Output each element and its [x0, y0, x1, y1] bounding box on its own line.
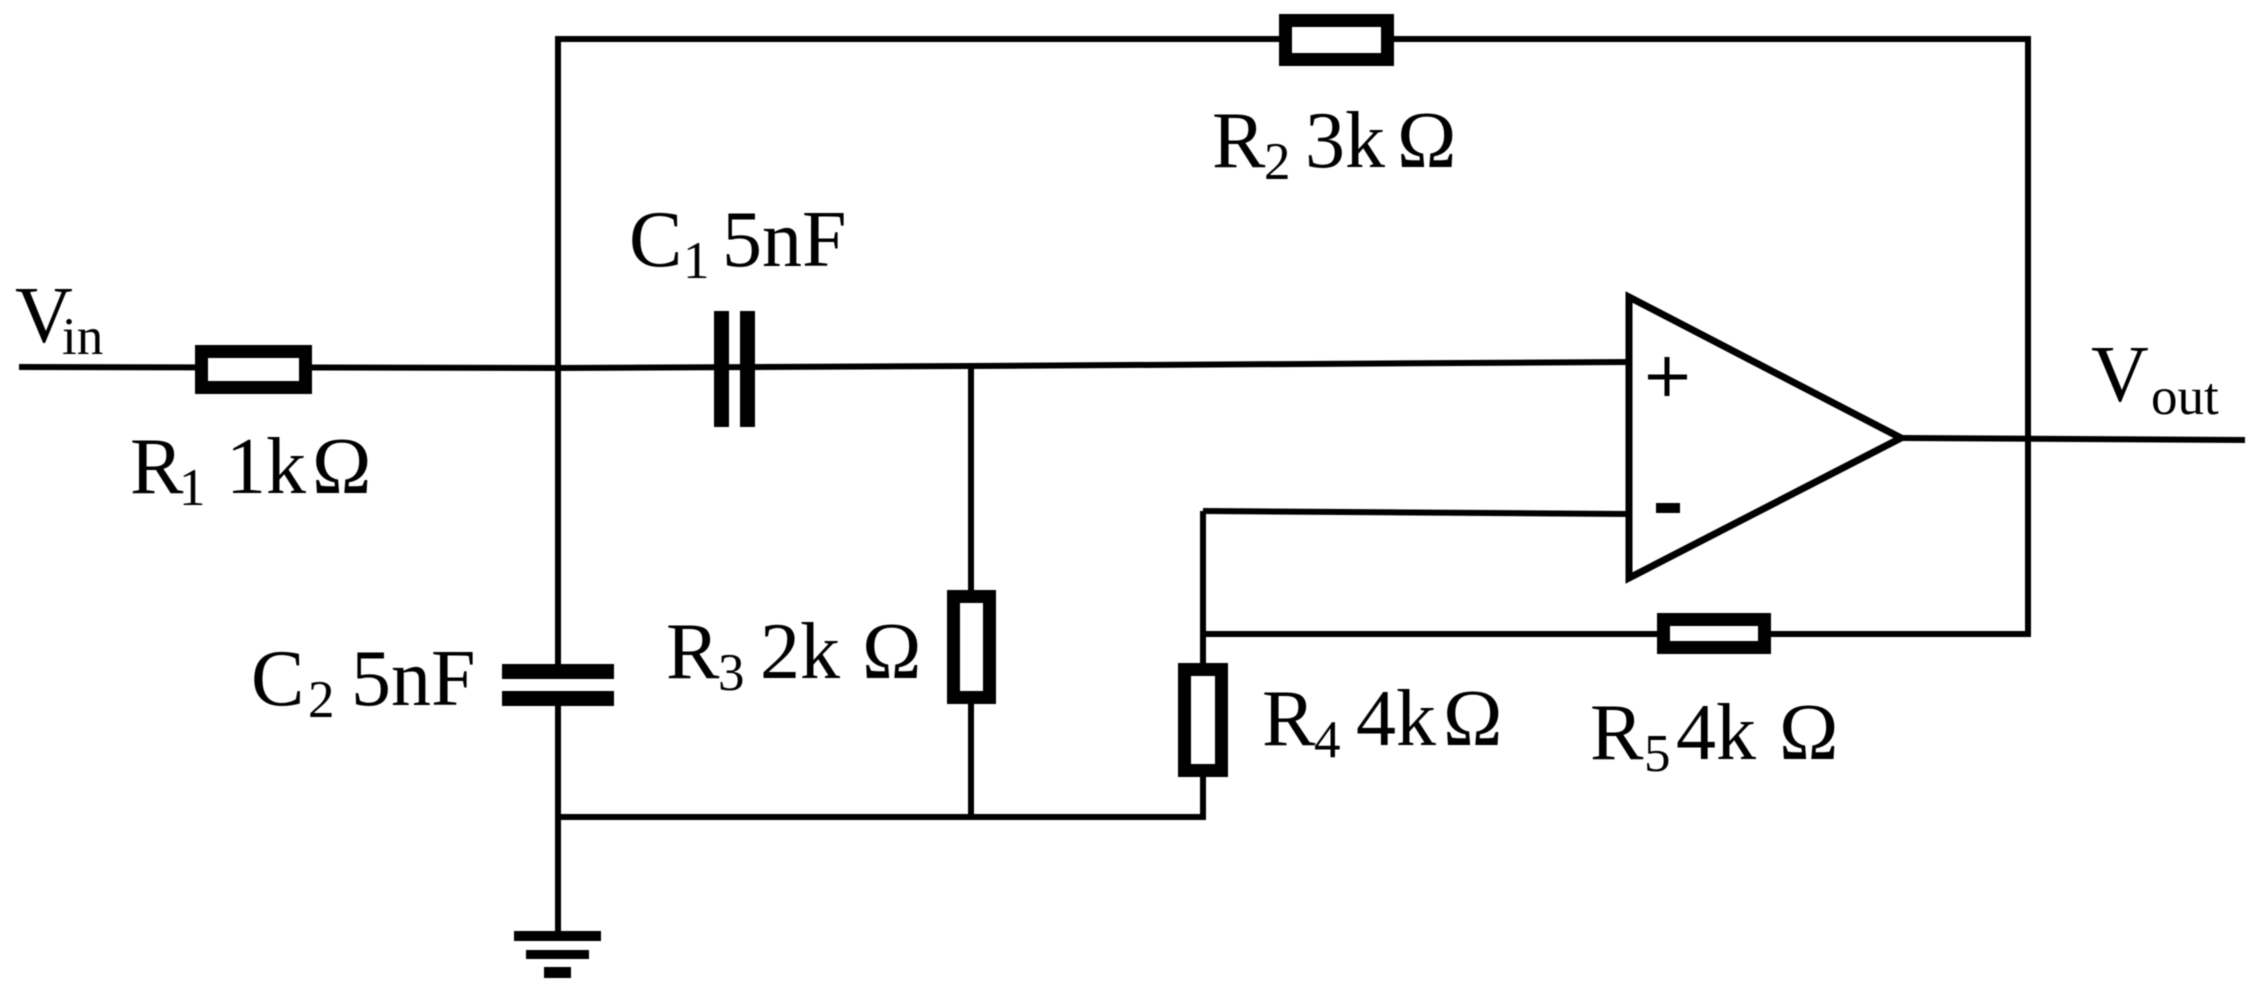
svg-text:3: 3 [718, 644, 745, 702]
svg-text:2: 2 [1264, 133, 1291, 191]
svg-text:2k: 2k [760, 608, 840, 696]
svg-text:Ω: Ω [862, 608, 921, 696]
svg-text:1k: 1k [226, 423, 306, 511]
svg-text:4k: 4k [1356, 675, 1436, 763]
svg-text:Ω: Ω [1397, 97, 1456, 185]
svg-text:R: R [1212, 97, 1266, 185]
svg-text:4: 4 [1314, 711, 1341, 769]
svg-text:Ω: Ω [1779, 689, 1838, 777]
svg-text:C: C [251, 635, 304, 723]
svg-text:R: R [1590, 689, 1644, 777]
svg-text:R: R [666, 608, 720, 696]
svg-text:1: 1 [179, 459, 206, 517]
svg-text:4k: 4k [1676, 689, 1756, 777]
svg-text:1: 1 [683, 232, 710, 290]
svg-text:R: R [1262, 675, 1316, 763]
svg-text:Ω: Ω [1443, 675, 1502, 763]
svg-text:5: 5 [1644, 725, 1671, 783]
svg-text:3k: 3k [1305, 97, 1385, 185]
svg-text:C: C [629, 196, 682, 284]
svg-text:5nF: 5nF [351, 635, 476, 723]
svg-text:out: out [2151, 368, 2219, 426]
svg-text:V: V [2091, 331, 2149, 419]
svg-text:2: 2 [308, 671, 335, 729]
svg-text:in: in [62, 308, 103, 366]
svg-text:R: R [130, 423, 184, 511]
svg-text:Ω: Ω [312, 423, 371, 511]
svg-text:5nF: 5nF [722, 196, 847, 284]
